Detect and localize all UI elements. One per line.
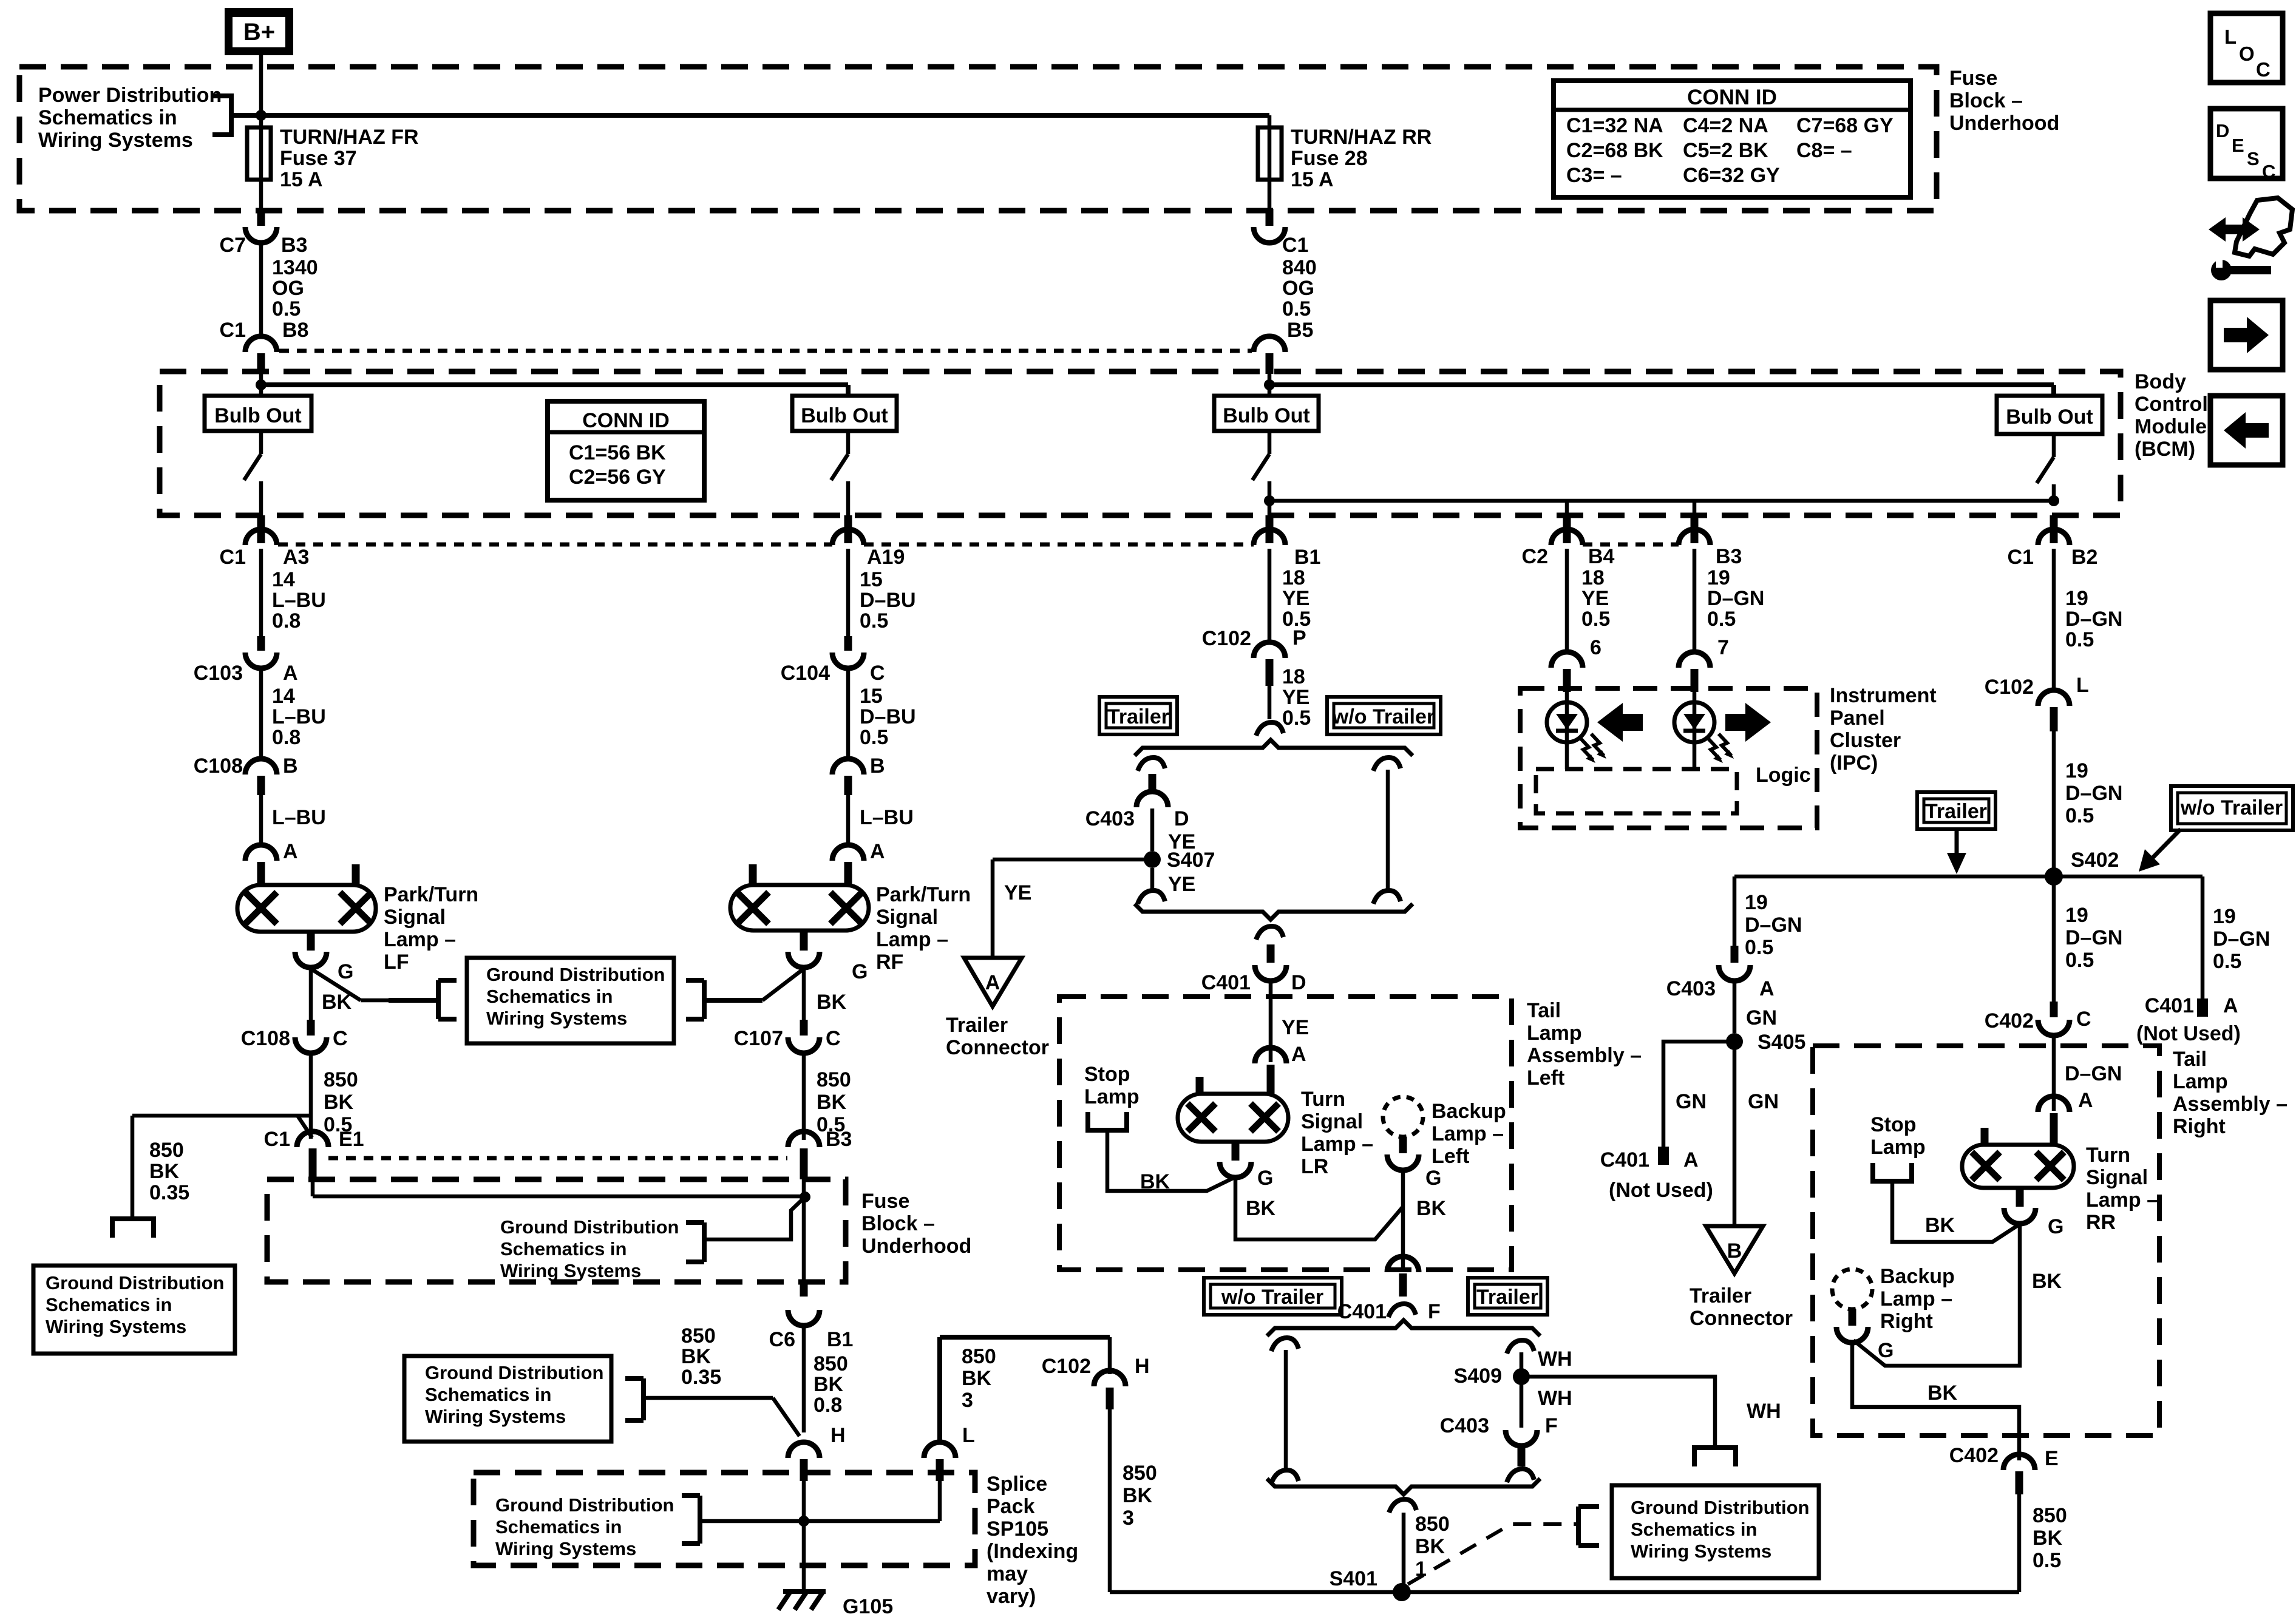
splice pack dashed box: [474, 1473, 975, 1565]
svg-text:850: 850: [1415, 1513, 1450, 1536]
RR lamp ground stub: [2016, 1188, 2024, 1207]
svg-text:Instrument: Instrument: [1830, 684, 1937, 707]
svg-text:Wiring Systems: Wiring Systems: [495, 1538, 636, 1559]
svg-text:YE: YE: [1004, 881, 1031, 904]
Backup Lamp Right dashed circle: [1832, 1269, 1872, 1309]
svg-text:0.35: 0.35: [681, 1366, 721, 1389]
wire 850 BK 3 (second): [1108, 1408, 1112, 1592]
svg-text:0.5: 0.5: [2065, 628, 2094, 651]
w/o trailer path: [1373, 758, 1401, 771]
svg-text:15 A: 15 A: [1291, 168, 1334, 191]
svg-text:Assembly –: Assembly –: [2173, 1093, 2288, 1116]
fuse block underhood dashed box (lower): [267, 1179, 846, 1282]
wire YE below S407: [1150, 868, 1155, 890]
svg-text:Wiring Systems: Wiring Systems: [500, 1260, 641, 1281]
trailer arrow down: [1955, 828, 1959, 856]
svg-text:Signal: Signal: [384, 906, 446, 929]
svg-text:Right: Right: [1880, 1310, 1933, 1333]
svg-text:BK: BK: [324, 1091, 354, 1114]
svg-text:A: A: [985, 971, 1000, 994]
connector boundary dotted line (below BCM): [278, 543, 832, 547]
svg-text:BK: BK: [1415, 1535, 1445, 1558]
svg-text:OG: OG: [1282, 277, 1314, 300]
wire 19 D-GN 0.5 to C402: [2052, 876, 2056, 1002]
svg-text:Ground Distribution: Ground Distribution: [425, 1362, 603, 1383]
connector IPC pin 7: [1679, 652, 1710, 668]
svg-text:OG: OG: [272, 277, 304, 300]
svg-text:Assembly –: Assembly –: [1527, 1044, 1642, 1067]
svg-text:Ground Distribution: Ground Distribution: [495, 1494, 674, 1516]
svg-text:C: C: [2262, 161, 2275, 182]
wire link L to C102 H: [940, 1335, 1110, 1340]
node junction in fuse block: [800, 1192, 810, 1202]
svg-text:WH: WH: [1747, 1400, 1781, 1423]
backup ground wire to C402 E: [1852, 1341, 2019, 1460]
svg-text:BK: BK: [1246, 1197, 1276, 1220]
trailer harness terminal: [1694, 1448, 1736, 1466]
svg-text:A: A: [1759, 977, 1775, 1000]
svg-text:B3: B3: [1716, 545, 1742, 568]
wire H to ground: [802, 1481, 806, 1590]
svg-text:C7=68 GY: C7=68 GY: [1796, 114, 1894, 137]
switch contact 4 (RR output): [2052, 434, 2056, 457]
svg-text:may: may: [987, 1562, 1028, 1585]
dashed link to ground dist note: [1408, 1524, 1577, 1584]
tail lamp assembly right dashed box: [1813, 1046, 2159, 1436]
svg-text:Turn: Turn: [1301, 1088, 1345, 1111]
wire drop to IPC right pin: [1693, 501, 1697, 515]
svg-text:(BCM): (BCM): [2135, 438, 2195, 461]
svg-text:B3: B3: [281, 234, 307, 257]
wire 14 L-BU 0.8 (upper): [259, 549, 263, 636]
svg-text:Wiring Systems: Wiring Systems: [486, 1008, 627, 1029]
svg-text:E: E: [2045, 1447, 2059, 1470]
wire GN to S405: [1733, 980, 1737, 1033]
svg-text:15: 15: [860, 685, 883, 708]
svg-text:C1: C1: [2008, 546, 2034, 569]
wire from B+ into fuse block: [259, 53, 263, 129]
branch 850 BK 0.35 to left: [297, 1114, 311, 1118]
svg-text:C: C: [826, 1027, 841, 1050]
ground G105: [783, 1589, 826, 1594]
splice S405: [1726, 1033, 1743, 1050]
Turn Signal Lamp RR: [1962, 1145, 2074, 1188]
lamp LF ground stub: [307, 932, 315, 951]
node junction at B+ bus: [256, 110, 267, 121]
backup lamp left ground: [1399, 1137, 1407, 1153]
svg-text:BK: BK: [1123, 1484, 1153, 1507]
svg-text:S407: S407: [1167, 849, 1215, 872]
svg-text:C: C: [333, 1027, 348, 1050]
LF ground wire + BK label: [309, 966, 313, 1020]
stop lamp ground wire: [1107, 1130, 1234, 1191]
brace merge bottom: [1135, 904, 1413, 920]
LED light rays left: [1580, 738, 1593, 760]
svg-text:Lamp: Lamp: [1084, 1085, 1140, 1108]
trailer connector A triangle: [964, 958, 1022, 1006]
svg-text:Turn: Turn: [2086, 1144, 2130, 1167]
connector RR lamp pin A: [2038, 1096, 2070, 1112]
break hook below brace: [1256, 926, 1283, 940]
svg-text:Right: Right: [2173, 1115, 2226, 1138]
connector B5 (BCM entry): [1254, 336, 1285, 352]
svg-text:BK: BK: [1927, 1381, 1958, 1405]
svg-text:D–GN: D–GN: [2065, 782, 2122, 805]
tail lamp assembly left dashed box: [1059, 997, 1512, 1270]
svg-text:Signal: Signal: [1301, 1110, 1363, 1133]
wire L-BU to lamp: [259, 795, 263, 845]
svg-text:C1: C1: [220, 546, 246, 569]
turn indicator LED left: [1565, 692, 1569, 769]
svg-text:0.8: 0.8: [813, 1394, 842, 1417]
wire 850 BK 0.5 to ground bus: [2017, 1493, 2022, 1592]
svg-text:D: D: [1291, 971, 1306, 994]
svg-text:C402: C402: [1985, 1009, 2034, 1032]
svg-text:Park/Turn: Park/Turn: [876, 883, 971, 906]
connector C104 pin C: [844, 636, 852, 651]
label box w/o Trailer (mid): [1327, 697, 1441, 734]
wire 18 YE 0.5 (below C102): [1268, 686, 1272, 719]
wire 1 exit BCM: [259, 501, 263, 515]
lamp stub left RR: [1981, 1128, 1989, 1145]
connector C401 exit: [1267, 944, 1275, 963]
svg-text:E: E: [2232, 135, 2244, 156]
wire 15 D-BU 0.5 (upper): [846, 549, 851, 636]
wire 18 YE 0.5 (above C102): [1268, 549, 1272, 645]
break hook above trailer brace: [1256, 722, 1283, 736]
svg-text:GN: GN: [1748, 1090, 1779, 1113]
svg-text:YE: YE: [1282, 587, 1309, 610]
svg-text:C2=56 GY: C2=56 GY: [569, 466, 666, 489]
svg-text:O: O: [2239, 42, 2255, 65]
RF ground branch diagonal: [763, 969, 804, 1000]
svg-text:A: A: [1291, 1043, 1306, 1066]
link from bracket to junction: [704, 1197, 805, 1239]
brace merge lower: [1267, 1479, 1540, 1494]
svg-text:LF: LF: [384, 951, 409, 974]
lamp stub left LR: [1196, 1077, 1204, 1094]
svg-text:C403: C403: [1085, 807, 1135, 830]
svg-text:0.5: 0.5: [2033, 1549, 2061, 1572]
lamp stub right LF: [352, 864, 360, 885]
svg-text:15 A: 15 A: [280, 168, 323, 191]
svg-text:BK: BK: [2032, 1270, 2062, 1293]
svg-text:Trailer: Trailer: [1476, 1286, 1538, 1309]
connector C1 pin B8 (BCM entry): [245, 336, 277, 352]
svg-text:Connector: Connector: [1690, 1307, 1793, 1330]
connector boundary dotted line (C7/C1 row): [279, 349, 1252, 353]
svg-text:Ground Distribution: Ground Distribution: [1631, 1497, 1809, 1518]
wire YE to S407: [1150, 808, 1155, 851]
svg-text:19: 19: [2065, 904, 2088, 927]
svg-text:7: 7: [1717, 636, 1729, 659]
svg-text:Tail: Tail: [1527, 999, 1561, 1022]
svg-text:C1: C1: [1282, 234, 1308, 257]
label box w/o Trailer (lower): [1204, 1278, 1342, 1315]
svg-text:A: A: [283, 840, 298, 863]
trailer path hook (lower): [1507, 1340, 1534, 1354]
svg-text:TURN/HAZ FR: TURN/HAZ FR: [280, 126, 419, 149]
svg-text:C1=56 BK: C1=56 BK: [569, 441, 666, 464]
svg-text:Wiring Systems: Wiring Systems: [425, 1406, 566, 1427]
S402 bus: [1734, 875, 2203, 879]
svg-text:0.8: 0.8: [272, 609, 301, 632]
node junction at splice: [798, 1516, 809, 1527]
svg-text:Connector: Connector: [946, 1036, 1049, 1059]
svg-text:C1: C1: [220, 319, 246, 342]
svg-text:C102: C102: [1985, 676, 2034, 699]
Bulb Out box 4: [1997, 396, 2102, 434]
svg-text:L: L: [2224, 25, 2237, 48]
connector pin B (RF): [832, 759, 864, 775]
svg-text:CONN ID: CONN ID: [582, 409, 670, 432]
svg-text:Underhood: Underhood: [1949, 112, 2059, 135]
wire 850 BK 0.8: [802, 1324, 806, 1432]
RF ground wire + BK label: [802, 966, 806, 1020]
trailer path top hook: [1138, 758, 1165, 771]
svg-text:B4: B4: [1588, 545, 1615, 568]
svg-text:A: A: [2078, 1089, 2093, 1112]
w/o trailer path (lower): [1271, 1338, 1299, 1351]
svg-text:BK: BK: [817, 991, 847, 1014]
svg-text:18: 18: [1581, 566, 1605, 589]
svg-text:Wiring Systems: Wiring Systems: [38, 129, 193, 152]
svg-text:Control: Control: [2135, 393, 2208, 416]
svg-text:Signal: Signal: [876, 906, 938, 929]
svg-text:G: G: [1878, 1339, 1894, 1362]
svg-text:Body: Body: [2135, 370, 2186, 393]
LF ground branch to ground distribution: [311, 969, 361, 1000]
svg-text:C6: C6: [769, 1328, 795, 1351]
svg-text:D: D: [2216, 120, 2229, 141]
branch to C403 A: [1733, 876, 1737, 946]
svg-text:(Not Used): (Not Used): [2136, 1022, 2241, 1045]
label box Trailer (lower): [1468, 1278, 1547, 1315]
svg-text:BK: BK: [2033, 1527, 2063, 1550]
svg-text:Signal: Signal: [2086, 1166, 2148, 1189]
svg-text:S401: S401: [1330, 1567, 1377, 1590]
svg-text:0.5: 0.5: [2065, 804, 2094, 827]
svg-text:S: S: [2247, 148, 2260, 169]
connector C6 pin B1: [800, 1282, 808, 1297]
svg-text:F: F: [1428, 1300, 1441, 1323]
svg-text:YE: YE: [1581, 587, 1609, 610]
svg-text:0.5: 0.5: [2065, 949, 2094, 972]
Bulb Out box 3: [1214, 396, 1319, 431]
BCM internal bus right: [1269, 382, 2054, 387]
svg-text:D–GN: D–GN: [2065, 926, 2122, 949]
wire GN to trailer connector B: [1733, 1042, 1737, 1226]
svg-text:Lamp –: Lamp –: [384, 928, 456, 951]
fuse block underhood dashed box (top): [19, 67, 1937, 211]
label box Trailer (right): [1917, 792, 1995, 829]
splice S407: [1144, 851, 1161, 868]
svg-text:0.5: 0.5: [860, 726, 888, 749]
svg-text:14: 14: [272, 685, 295, 708]
svg-text:C401: C401: [2145, 994, 2194, 1017]
svg-text:BK: BK: [1925, 1214, 1955, 1237]
wire 15 D-BU 0.5 (lower): [846, 667, 851, 756]
Park/Turn Signal Lamp RF: [730, 885, 869, 931]
connector C108 pin C: [307, 1020, 315, 1036]
right turn arrow: [1725, 703, 1771, 742]
connector splice pack pin H: [788, 1442, 820, 1458]
svg-text:Bulb Out: Bulb Out: [1223, 404, 1310, 427]
svg-text:D–GN: D–GN: [1745, 914, 1802, 937]
svg-text:RF: RF: [876, 951, 903, 974]
svg-text:Stop: Stop: [1870, 1113, 1917, 1136]
svg-text:C: C: [870, 662, 885, 685]
svg-text:S405: S405: [1758, 1031, 1805, 1054]
svg-text:D–GN: D–GN: [2213, 927, 2270, 951]
splice bus: [700, 1519, 940, 1524]
svg-text:Lamp: Lamp: [1870, 1136, 1926, 1159]
svg-text:Power Distribution: Power Distribution: [38, 84, 222, 107]
Turn Signal Lamp LR: [1178, 1094, 1288, 1142]
left turn arrow: [1597, 703, 1643, 742]
svg-text:850: 850: [681, 1324, 716, 1347]
svg-text:Trailer: Trailer: [1107, 705, 1169, 728]
svg-text:(Not Used): (Not Used): [1609, 1179, 1713, 1202]
stop lamp terminal (left): [1088, 1112, 1127, 1130]
svg-text:Schematics in: Schematics in: [46, 1294, 172, 1315]
svg-text:Schematics in: Schematics in: [1631, 1519, 1757, 1540]
svg-text:3: 3: [1123, 1507, 1134, 1530]
svg-text:850: 850: [324, 1068, 358, 1091]
wire 1340 OG 0.5: [259, 240, 263, 337]
svg-text:BK: BK: [1140, 1170, 1170, 1193]
splice S409: [1520, 1352, 1524, 1428]
turn indicator LED right: [1693, 692, 1697, 769]
svg-text:G: G: [852, 960, 868, 983]
Park/Turn Signal Lamp LF: [237, 885, 376, 932]
svg-text:0.5: 0.5: [1282, 707, 1311, 730]
bracket right of fuse-block ground note: [702, 1222, 707, 1262]
svg-text:B3: B3: [826, 1128, 852, 1151]
svg-text:14: 14: [272, 568, 295, 591]
svg-text:S402: S402: [2071, 849, 2119, 872]
svg-text:E1: E1: [339, 1128, 364, 1151]
node junction on BCM bus right: [1264, 379, 1275, 390]
w/o trailer arrow: [2152, 829, 2181, 858]
svg-text:A: A: [2223, 994, 2238, 1017]
svg-text:C108: C108: [194, 754, 243, 778]
icon back arrow: [2210, 396, 2283, 465]
wire 19 D-GN 0.5 to IPC: [1693, 549, 1697, 651]
wire L-BU to RF lamp: [846, 795, 851, 845]
svg-text:Backup: Backup: [1432, 1100, 1506, 1123]
svg-text:WH: WH: [1538, 1387, 1572, 1410]
logic dashed box: [1536, 769, 1737, 813]
svg-text:850: 850: [1123, 1462, 1157, 1485]
svg-text:850: 850: [962, 1345, 996, 1368]
svg-text:Tail: Tail: [2173, 1048, 2207, 1071]
break hook below lower brace: [1389, 1499, 1416, 1513]
lamp RF ground stub: [800, 931, 808, 951]
svg-text:0.5: 0.5: [1707, 608, 1736, 631]
ground distribution box 3: [404, 1356, 611, 1442]
trailer path bottom hook: [1138, 890, 1165, 904]
svg-text:Trailer: Trailer: [1690, 1284, 1751, 1307]
icon DESC: [2210, 109, 2283, 178]
IPC feed exit stubs: [1563, 515, 1571, 543]
internal ground bus of fuse block: [311, 1179, 315, 1196]
svg-text:0.5: 0.5: [2213, 950, 2241, 973]
svg-text:(IPC): (IPC): [1830, 751, 1878, 775]
Instrument Panel Cluster dashed box: [1520, 688, 1817, 828]
icon LOC: [2210, 13, 2283, 83]
svg-text:C108: C108: [241, 1027, 290, 1050]
svg-text:RR: RR: [2086, 1211, 2116, 1234]
svg-text:B: B: [1727, 1239, 1742, 1263]
svg-text:Pack: Pack: [987, 1495, 1034, 1518]
svg-text:A: A: [870, 840, 885, 863]
svg-text:Bulb Out: Bulb Out: [801, 404, 888, 427]
svg-text:GN: GN: [1676, 1090, 1707, 1113]
svg-text:C2: C2: [1522, 545, 1548, 568]
wire 18 YE 0.5 to IPC: [1565, 549, 1569, 651]
svg-text:BK: BK: [1416, 1197, 1447, 1220]
svg-text:Left: Left: [1527, 1066, 1564, 1090]
svg-text:BK: BK: [149, 1160, 180, 1183]
connector C102 pin H: [1108, 1337, 1112, 1374]
svg-text:6: 6: [1590, 636, 1601, 659]
svg-text:19: 19: [2065, 759, 2088, 782]
svg-text:B+: B+: [243, 19, 275, 46]
svg-text:0.5: 0.5: [1581, 608, 1610, 631]
svg-text:19: 19: [1707, 566, 1730, 589]
svg-text:H: H: [830, 1424, 846, 1447]
svg-text:0.8: 0.8: [272, 726, 301, 749]
svg-text:Lamp: Lamp: [2173, 1070, 2228, 1093]
svg-text:Ground Distribution: Ground Distribution: [46, 1272, 224, 1293]
svg-text:YE: YE: [1168, 873, 1195, 896]
svg-text:19: 19: [2213, 905, 2236, 928]
power bus to fuse 28: [261, 113, 1269, 118]
connector C1 pin E1: [297, 1131, 328, 1147]
wire 850 BK 0.5 (RF): [802, 1052, 806, 1140]
svg-text:w/o Trailer: w/o Trailer: [1221, 1286, 1323, 1309]
wire into BCM from B5: [1268, 374, 1272, 396]
svg-text:L–BU: L–BU: [860, 806, 914, 829]
svg-text:A3: A3: [283, 546, 309, 569]
svg-text:C6=32 GY: C6=32 GY: [1683, 164, 1780, 187]
splice S402: [2045, 867, 2063, 886]
svg-text:D–BU: D–BU: [860, 705, 916, 728]
ground distribution box 1: [467, 958, 674, 1043]
svg-text:L–BU: L–BU: [272, 589, 326, 612]
svg-text:C104: C104: [781, 662, 830, 685]
Backup Lamp Left dashed circle: [1383, 1097, 1423, 1137]
trailer connector B triangle: [1706, 1226, 1763, 1273]
svg-text:Block –: Block –: [1949, 89, 2023, 112]
svg-text:B2: B2: [2071, 546, 2097, 569]
svg-text:Trailer: Trailer: [946, 1014, 1008, 1037]
svg-text:C102: C102: [1202, 627, 1251, 650]
wire 850 BK 0.5 (LF): [309, 1052, 313, 1139]
wire 3 exit BCM: [1268, 501, 1272, 515]
svg-text:G105: G105: [843, 1595, 893, 1617]
svg-text:1340: 1340: [272, 256, 318, 279]
svg-text:Bulb Out: Bulb Out: [2006, 405, 2093, 429]
svg-text:C107: C107: [734, 1027, 783, 1050]
ground distribution box 0: [33, 1266, 235, 1354]
svg-text:Ground Distribution: Ground Distribution: [500, 1216, 679, 1238]
LED light rays right: [1708, 738, 1720, 760]
svg-text:L: L: [2076, 674, 2089, 697]
svg-text:C2=68 BK: C2=68 BK: [1566, 139, 1663, 162]
svg-text:L–BU: L–BU: [272, 806, 326, 829]
